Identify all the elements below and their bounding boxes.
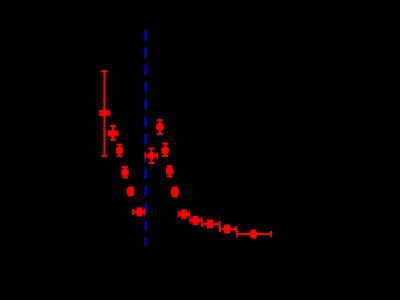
data point P8 with error bars (156, 120, 164, 134)
data point P9 with error bars (161, 144, 169, 156)
data point P6 with error bars (133, 208, 144, 216)
data point P12 with error bars (179, 210, 190, 218)
data point P11 with error bars (171, 188, 179, 197)
data point P13 with error bars (190, 217, 201, 225)
data point P15 with error bars (220, 225, 236, 233)
data point P2 with error bars (109, 126, 118, 140)
data point P5 with error bars (127, 187, 135, 195)
data point P4 with error bars (121, 167, 129, 177)
data point P10 with error bars (166, 166, 174, 176)
data point P3 with error bars (116, 145, 124, 156)
data point P16 with error bars (237, 230, 271, 238)
data point P1 with error bars (100, 71, 109, 156)
data point P7 with error bars (146, 149, 157, 164)
data point P14 with error bars (202, 220, 219, 228)
vertical blue dashed threshold line (145, 30, 147, 245)
